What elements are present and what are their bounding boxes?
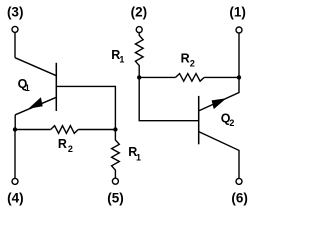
wire (Q2 base) xyxy=(139,77,199,120)
svg-text:R2: R2 xyxy=(181,51,195,68)
node D (Q2 emitter junction) xyxy=(237,75,241,79)
wire xyxy=(15,129,51,131)
svg-text:Q1: Q1 xyxy=(18,77,30,93)
wire xyxy=(78,129,115,131)
terminal (4) xyxy=(12,178,18,184)
terminal (6) xyxy=(236,178,242,184)
wire xyxy=(238,33,240,77)
wire xyxy=(14,115,16,130)
resistor R2 (right) xyxy=(176,74,205,82)
node C (Q2 base junction) xyxy=(137,75,141,79)
node B (Q1 base junction) xyxy=(113,127,117,131)
terminal (2) xyxy=(136,27,142,33)
wire xyxy=(14,130,16,179)
wire (Q1 base) xyxy=(56,86,115,129)
svg-text:Q2: Q2 xyxy=(221,112,235,129)
svg-text:(1): (1) xyxy=(229,5,246,20)
svg-text:(5): (5) xyxy=(107,190,124,205)
svg-text:R1: R1 xyxy=(128,145,141,162)
transistor Q2 xyxy=(199,77,239,178)
svg-text:(2): (2) xyxy=(131,5,148,20)
terminal (3) xyxy=(12,26,18,32)
transistor Q1 xyxy=(15,58,56,115)
wire xyxy=(204,76,239,78)
svg-text:R1: R1 xyxy=(111,48,124,64)
svg-text:(4): (4) xyxy=(7,190,24,205)
resistor R1 (right) xyxy=(135,33,143,78)
resistor R1 (left) xyxy=(112,130,120,179)
node A (Q1 emitter junction) xyxy=(13,127,17,131)
svg-text:(6): (6) xyxy=(231,190,248,205)
svg-text:R2: R2 xyxy=(58,137,73,154)
terminal (1) xyxy=(236,27,242,33)
resistor R2 (left) xyxy=(51,126,78,134)
terminal (5) xyxy=(112,178,118,184)
wire xyxy=(139,76,175,78)
wire xyxy=(14,32,16,57)
svg-text:(3): (3) xyxy=(7,5,24,20)
